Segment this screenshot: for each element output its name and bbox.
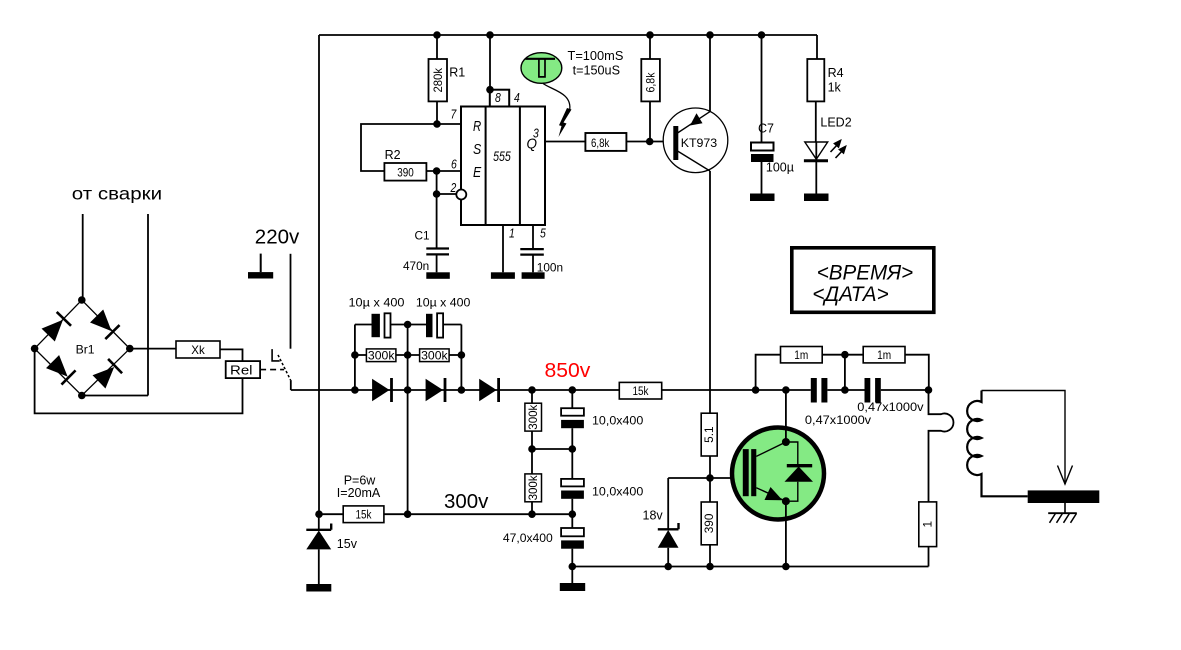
wire top supply rail <box>319 34 817 36</box>
svg-text:C1: C1 <box>415 228 430 242</box>
node 850v row right dots <box>752 386 933 394</box>
svg-text:7: 7 <box>451 106 458 121</box>
555 pin number labels <box>450 90 547 241</box>
svg-text:6: 6 <box>451 157 458 172</box>
wire pin1 to ground <box>502 225 504 272</box>
svg-text:850v: 850v <box>545 359 592 382</box>
svg-text:R2: R2 <box>385 148 401 162</box>
wire welding lead right <box>83 214 148 396</box>
svg-text:0,47x1000v: 0,47x1000v <box>805 413 872 427</box>
capacitor 10,0x400 lower <box>561 479 643 528</box>
svg-text:<ДАТА>: <ДАТА> <box>812 282 888 306</box>
svg-text:300v: 300v <box>444 490 489 513</box>
220v phase terminal <box>248 254 273 279</box>
display box ВРЕМЯ/ДАТА <box>792 248 934 312</box>
inductor secondary coil <box>967 391 1028 497</box>
ground under 47,0x400 <box>560 583 585 591</box>
ground under C7 <box>750 194 775 202</box>
resistor 5.1 <box>701 413 717 502</box>
svg-text:LED2: LED2 <box>820 116 851 130</box>
arrow from waveform icon to pin3 wire <box>543 84 572 138</box>
node 1m middle junction <box>841 351 849 359</box>
svg-text:280k: 280k <box>431 68 445 93</box>
svg-text:2: 2 <box>450 180 457 195</box>
wire primary loop drop <box>929 390 954 502</box>
resistor 1m second <box>863 347 929 391</box>
node center column dots <box>528 386 576 570</box>
resistor Xk <box>176 341 220 358</box>
ground under LED2 <box>804 194 829 202</box>
svg-text:1m: 1m <box>877 348 891 362</box>
svg-text:R: R <box>473 119 482 135</box>
svg-text:8: 8 <box>495 90 502 105</box>
svg-text:6,8k: 6,8k <box>644 72 658 92</box>
svg-text:1k: 1k <box>828 81 842 95</box>
svg-text:t=150uS: t=150uS <box>573 63 621 78</box>
resistor 1m first <box>756 347 864 391</box>
node base junction <box>646 138 654 146</box>
svg-text:10µ x 400: 10µ x 400 <box>416 295 471 309</box>
svg-text:<ВРЕМЯ>: <ВРЕМЯ> <box>817 260 914 284</box>
resistor 6,8k horizontal <box>585 133 626 151</box>
node pin2 junction <box>433 190 441 198</box>
wire left vertical rail <box>318 35 320 514</box>
resistor 300k vertical lower <box>525 474 542 514</box>
svg-text:5: 5 <box>540 226 547 241</box>
svg-text:E: E <box>473 165 481 181</box>
zener diode 18v <box>643 478 679 567</box>
wire pin6 to pin2 to C1 <box>437 171 457 249</box>
svg-text:4: 4 <box>514 90 520 105</box>
zener diode 15v <box>306 514 357 584</box>
ground under C1 <box>426 272 450 279</box>
transistor Q1 KT973 <box>663 35 728 413</box>
svg-text:Br1: Br1 <box>76 343 95 357</box>
svg-text:18v: 18v <box>643 509 664 523</box>
capacitor 47,0x400 <box>503 528 584 583</box>
LED2 <box>804 116 852 194</box>
svg-text:от сварки: от сварки <box>72 184 162 204</box>
svg-text:300k: 300k <box>526 474 540 500</box>
LED2 light arrows <box>831 141 846 159</box>
wire doubler middle column <box>407 325 409 515</box>
node top rail junction dots <box>433 31 765 39</box>
capacitor 100n on pin5 <box>520 225 563 275</box>
earth ground symbol <box>1048 503 1077 523</box>
wire 220v to switch <box>290 254 292 349</box>
svg-text:300k: 300k <box>526 404 540 430</box>
svg-text:Xk: Xk <box>191 343 205 357</box>
svg-text:T=100mS: T=100mS <box>568 48 624 63</box>
resistor 1 vertical <box>919 502 937 567</box>
wire 300v row <box>319 513 572 515</box>
waveform icon green ellipse <box>521 53 562 84</box>
ground under 100n <box>522 272 545 279</box>
node bottom row dots <box>664 563 789 571</box>
svg-text:1: 1 <box>509 226 515 241</box>
svg-text:R1: R1 <box>449 66 465 80</box>
node pin6 junction <box>433 167 441 175</box>
555 internal labels <box>473 119 537 181</box>
op-amp U1 555 timer body <box>461 90 545 225</box>
svg-text:S: S <box>473 142 481 158</box>
wire IGBT collector <box>785 390 787 442</box>
diode bridge bottom-right <box>92 359 122 389</box>
resistor R1 <box>429 35 466 124</box>
IGBT gate bars <box>743 449 757 496</box>
svg-text:100µ: 100µ <box>766 160 794 174</box>
bridge rectifier Br1 diamond <box>35 300 130 396</box>
diode bridge top-right <box>90 309 120 339</box>
svg-text:300k: 300k <box>368 348 396 362</box>
resistor 300k first <box>355 348 396 362</box>
diode D2 <box>426 378 445 402</box>
capacitor 0,47x1000v first <box>805 378 872 427</box>
wire output to base <box>627 141 675 143</box>
wire Rel bottom loop to bridge minus <box>35 349 243 414</box>
wire emitter bottom row <box>572 566 928 568</box>
svg-text:R4: R4 <box>828 66 844 80</box>
resistor 300k vertical upper <box>525 390 542 474</box>
ground under pin1 <box>491 272 515 279</box>
wire main 850v row <box>291 389 929 391</box>
diode D1 <box>372 378 391 402</box>
svg-text:220v: 220v <box>255 226 300 249</box>
electrode arrow head <box>1058 466 1073 485</box>
resistor 15k on 850v line <box>619 382 661 399</box>
svg-text:15k: 15k <box>356 509 372 521</box>
svg-text:15k: 15k <box>633 386 649 398</box>
resistor 15k low voltage supply <box>343 506 384 523</box>
resistor R4 <box>807 35 843 142</box>
resistor 6,8k vertical <box>641 35 660 142</box>
svg-text:10µ x 400: 10µ x 400 <box>349 295 405 309</box>
capacitor 10u x 400 first <box>349 295 427 337</box>
capacitor C1 <box>403 228 449 273</box>
diode bridge bottom-left <box>46 355 76 385</box>
pin 2 inversion bubble <box>456 190 466 200</box>
switch blade <box>278 355 291 380</box>
resistor R2 <box>384 148 426 181</box>
svg-text:390: 390 <box>702 513 716 533</box>
ground under 15v zener <box>306 584 331 592</box>
wire 300k to cap link <box>532 448 572 450</box>
wire doubler left column <box>355 325 372 391</box>
node bridge corner dots <box>31 296 134 399</box>
wire Xk to Rel <box>220 349 243 361</box>
node 300v row dots <box>315 510 411 518</box>
wire 1m middle drop <box>844 355 846 390</box>
resistor 300k second <box>396 348 462 362</box>
svg-text:Q: Q <box>527 137 538 153</box>
wire pin6 <box>426 170 461 172</box>
diode D3 <box>479 378 498 402</box>
svg-text:Rel: Rel <box>230 363 253 378</box>
welding electrode bar <box>1028 490 1100 503</box>
wire welding lead left <box>82 214 84 300</box>
node pin7 junction <box>433 120 441 128</box>
svg-text:10,0x400: 10,0x400 <box>592 485 643 499</box>
relay coil Rel <box>226 361 260 378</box>
switch fixed contact <box>272 349 280 361</box>
capacitor 10u x 400 second <box>416 295 471 390</box>
wire IGBT emitter <box>785 501 787 566</box>
node doubler junction dots <box>351 321 465 394</box>
svg-text:I=20mA: I=20mA <box>337 486 381 500</box>
IGBT module green circle <box>732 428 824 520</box>
wire bridge plus output <box>130 348 176 350</box>
wire gate drive row <box>668 477 743 479</box>
wire pin3 output <box>545 141 585 143</box>
node gate junction <box>706 474 714 482</box>
wire coil top to electrode arrow <box>982 391 1066 485</box>
node pin8 junction <box>486 86 494 94</box>
resistor 390 vertical <box>701 502 717 567</box>
svg-text:0,47x1000v: 0,47x1000v <box>857 400 924 414</box>
svg-text:390: 390 <box>397 165 414 179</box>
svg-text:555: 555 <box>493 149 511 164</box>
capacitor C7 <box>751 35 794 194</box>
diode bridge top-left <box>41 312 71 342</box>
svg-text:6,8k: 6,8k <box>591 136 609 150</box>
svg-text:300k: 300k <box>421 348 449 362</box>
svg-text:1m: 1m <box>794 348 808 362</box>
svg-text:47,0x400: 47,0x400 <box>503 531 553 545</box>
IGBT internal diode <box>785 466 814 482</box>
wire switch to mains row <box>290 380 292 390</box>
capacitor 10,0x400 upper <box>561 390 643 479</box>
svg-text:1: 1 <box>921 521 935 528</box>
svg-text:5.1: 5.1 <box>702 426 716 442</box>
svg-text:470n: 470n <box>403 259 429 273</box>
IGBT emitter link with arrow <box>756 482 798 501</box>
svg-text:10,0x400: 10,0x400 <box>592 414 643 428</box>
wire pin7 feedback loop <box>361 124 461 171</box>
node IGBT internal dots <box>782 438 790 505</box>
dashed link Rel to switch <box>260 369 284 371</box>
svg-text:KT973: KT973 <box>681 136 718 150</box>
IGBT collector link <box>756 442 798 466</box>
svg-text:15v: 15v <box>337 537 358 551</box>
wire 555 supply pin8/4 <box>489 35 491 90</box>
capacitor 0,47x1000v second <box>857 378 924 414</box>
svg-text:C7: C7 <box>758 122 774 136</box>
